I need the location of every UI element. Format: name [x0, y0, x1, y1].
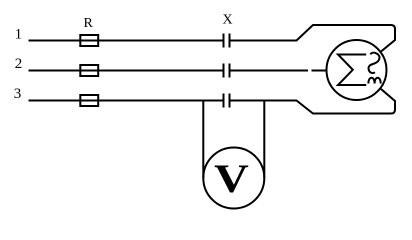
svg-text:X: X — [222, 12, 232, 27]
svg-text:3: 3 — [14, 86, 22, 102]
svg-text:R: R — [84, 16, 94, 31]
svg-text:2: 2 — [15, 56, 23, 72]
svg-text:V: V — [214, 157, 249, 201]
svg-text:1: 1 — [15, 27, 23, 43]
